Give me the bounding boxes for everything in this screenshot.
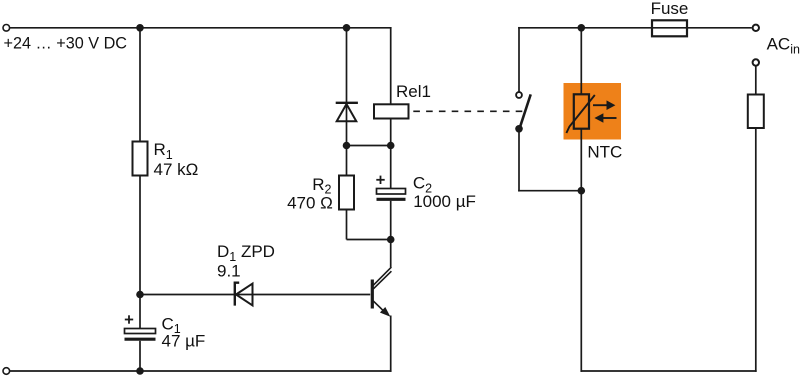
transistor Q1 (372, 267, 391, 317)
wire node to R2 (346, 146, 348, 176)
capacitor C2 (377, 189, 406, 200)
wire top DC rail (10, 27, 392, 29)
wire NTC branch upper (580, 28, 582, 95)
wire C1 to bottom rail (139, 341, 141, 371)
svg-text:NTC: NTC (587, 143, 622, 162)
node diode-R2 (343, 142, 351, 150)
wire bottom left rail (10, 370, 392, 372)
relay Rel1 (374, 104, 409, 118)
flyback diode (336, 103, 358, 121)
node switch-NTC bottom (578, 187, 586, 195)
node top diode (343, 24, 351, 32)
wire relay branch top (390, 27, 392, 104)
resistor R1 (133, 142, 148, 176)
wire node row y145 (347, 145, 391, 147)
wire load to bottom rail (755, 128, 757, 372)
svg-text:D1 ZPD: D1 ZPD (217, 242, 275, 264)
svg-text:470 Ω: 470 Ω (287, 194, 333, 213)
wire collector vertical (390, 240, 392, 268)
wire switch to NTC branch (518, 190, 581, 192)
NTC slash (566, 95, 594, 133)
switch blade (520, 94, 531, 128)
NTC orange box (564, 83, 622, 140)
wire NTC branch lower (580, 129, 582, 372)
wire ACin to load (755, 67, 757, 95)
svg-text:47 kΩ: 47 kΩ (154, 160, 199, 179)
terminal DC+ (3, 25, 10, 32)
wire relay bottom (390, 119, 392, 146)
node collector (387, 236, 395, 244)
node relay-C2 (387, 142, 395, 150)
NTC arrow left (594, 113, 616, 123)
svg-text:9.1: 9.1 (217, 262, 241, 281)
svg-text:Rel1: Rel1 (396, 82, 431, 101)
svg-text:+24 … +30 V DC: +24 … +30 V DC (4, 34, 128, 53)
wire AC top rail (518, 27, 752, 29)
wire R1 to C1 (139, 176, 141, 329)
resistor R2 (339, 176, 354, 210)
node top R1 (136, 24, 144, 32)
wire node to transistor base through zener (140, 294, 370, 296)
dashed mechanical link (413, 110, 526, 112)
node bottom C1 (136, 367, 144, 375)
terminal AC top (753, 25, 759, 31)
wire bottom right rail (580, 370, 756, 372)
wire C2 bottom to node (390, 201, 392, 240)
load resistor (748, 95, 764, 129)
switch contact open circle (516, 92, 522, 98)
plus C2 (376, 176, 384, 184)
wire switch branch lower (518, 129, 520, 192)
wire flyback diode branch (346, 28, 348, 146)
wire R1 branch vertical (139, 28, 141, 142)
wire node to C2 top (390, 146, 392, 189)
terminal AC bottom (753, 59, 759, 65)
capacitor C1 (125, 329, 156, 340)
wire switch branch upper (518, 27, 520, 92)
terminal DC- (3, 368, 10, 375)
switch contact dot (515, 125, 523, 133)
node zener-C1 (136, 291, 144, 299)
wire R2 bottom (346, 210, 348, 240)
svg-text:47 µF: 47 µF (162, 331, 206, 350)
plus C1 (125, 315, 133, 323)
NTC thermistor body (574, 94, 589, 128)
node AC top NTC (578, 24, 586, 32)
svg-text:1000 µF: 1000 µF (413, 192, 476, 211)
wire R2 to C2 node (347, 239, 391, 241)
svg-text:Fuse: Fuse (651, 0, 689, 18)
wire emitter vertical (390, 316, 392, 372)
NTC arrow right (593, 100, 615, 110)
fuse F1 (652, 20, 687, 36)
zener diode D1 (235, 283, 253, 306)
